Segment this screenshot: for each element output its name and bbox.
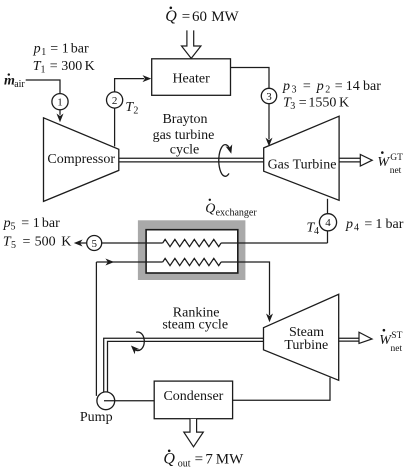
svg-text:1: 1 (41, 47, 46, 58)
svg-text:bar: bar (71, 42, 89, 57)
svg-text:p: p (316, 79, 324, 94)
svg-text:Pump: Pump (80, 410, 113, 425)
svg-text:14: 14 (346, 79, 360, 94)
svg-text:ST: ST (391, 331, 402, 341)
svg-text:=: = (364, 217, 372, 232)
svg-text:Q: Q (163, 451, 175, 468)
svg-text:MW: MW (211, 9, 239, 25)
svg-text:air: air (14, 79, 25, 90)
svg-text:7: 7 (205, 452, 213, 468)
svg-text:=: = (50, 42, 58, 57)
svg-text:5: 5 (11, 222, 16, 233)
svg-text:p: p (345, 217, 353, 232)
svg-text:cycle: cycle (170, 143, 200, 158)
svg-text:Brayton: Brayton (162, 112, 207, 127)
svg-text:5: 5 (91, 238, 97, 250)
svg-text:=: = (50, 59, 58, 74)
svg-text:3: 3 (290, 101, 295, 112)
svg-text:bar: bar (386, 217, 404, 232)
svg-text:=: = (195, 452, 203, 468)
svg-text:=: = (182, 9, 190, 25)
svg-text:1: 1 (57, 97, 63, 109)
svg-text:=: = (335, 79, 343, 94)
svg-text:1: 1 (33, 216, 40, 231)
svg-text:bar: bar (42, 216, 60, 231)
svg-text:steam cycle: steam cycle (162, 318, 228, 333)
svg-text:2: 2 (325, 85, 330, 96)
svg-text:out: out (178, 459, 191, 470)
svg-text:K: K (61, 235, 71, 250)
svg-text:1: 1 (41, 65, 46, 76)
svg-text:2: 2 (112, 95, 118, 107)
svg-text:W: W (377, 155, 390, 170)
svg-text:net: net (390, 166, 402, 176)
svg-text:=: = (303, 79, 311, 94)
svg-text:GT: GT (390, 153, 403, 163)
svg-text:1550: 1550 (308, 96, 336, 111)
svg-text:Q: Q (205, 202, 215, 217)
svg-text:K: K (339, 96, 349, 111)
svg-text:gas turbine: gas turbine (153, 128, 215, 143)
svg-text:p: p (282, 79, 290, 94)
svg-text:60: 60 (192, 9, 207, 25)
svg-text:Compressor: Compressor (47, 152, 115, 167)
svg-text:2: 2 (133, 106, 138, 117)
svg-text:4: 4 (354, 223, 359, 234)
svg-text:3: 3 (266, 91, 272, 103)
svg-text:1: 1 (375, 217, 382, 232)
svg-text:=: = (23, 235, 31, 250)
svg-text:MW: MW (216, 452, 244, 468)
svg-text:3: 3 (292, 85, 297, 96)
svg-text:bar: bar (363, 79, 381, 94)
svg-text:K: K (85, 59, 95, 74)
svg-text:4: 4 (325, 217, 331, 229)
svg-text:300: 300 (61, 59, 82, 74)
svg-text:Turbine: Turbine (284, 338, 328, 353)
svg-text:Heater: Heater (172, 72, 210, 87)
svg-text:=: = (21, 216, 29, 231)
svg-text:net: net (391, 344, 403, 354)
svg-text:p: p (3, 216, 11, 231)
svg-text:exchanger: exchanger (216, 208, 258, 219)
svg-text:1: 1 (62, 42, 69, 57)
svg-text:5: 5 (11, 240, 16, 251)
svg-text:500: 500 (35, 235, 56, 250)
svg-text:p: p (33, 42, 41, 57)
svg-text:4: 4 (314, 226, 319, 237)
svg-text:=: = (299, 96, 307, 111)
svg-text:Q: Q (165, 8, 177, 25)
svg-text:Condenser: Condenser (163, 389, 223, 404)
svg-text:Gas Turbine: Gas Turbine (268, 158, 337, 173)
